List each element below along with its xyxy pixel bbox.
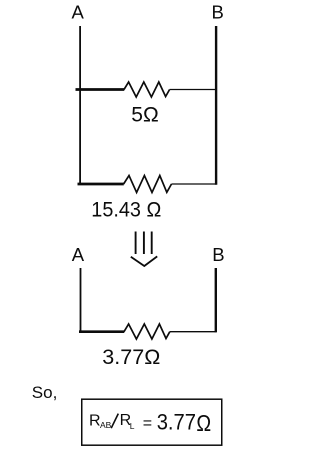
- svg-text:=: =: [143, 415, 152, 432]
- svg-text:R: R: [89, 412, 101, 429]
- equivalence arrow: bar 1: [135, 232, 137, 255]
- svg-text:3.77: 3.77: [157, 409, 196, 434]
- equivalence arrow: chevron: [131, 256, 157, 266]
- svg-text:3.77Ω: 3.77Ω: [102, 345, 160, 369]
- result formula slash: [111, 414, 118, 429]
- wire: thin lead right of resistor RL: [170, 331, 216, 333]
- wire: left vertical, bottom circuit: [80, 268, 82, 332]
- wire: right vertical, bottom circuit: [215, 268, 217, 332]
- svg-text:B: B: [212, 244, 224, 265]
- svg-text:Ω: Ω: [196, 410, 211, 436]
- equivalence arrow: bar 2: [143, 232, 145, 255]
- wire: thin lead right of resistor R1: [170, 89, 216, 91]
- result box: [82, 399, 222, 445]
- svg-text:5Ω: 5Ω: [131, 103, 159, 127]
- wire: bold lead left of resistor R1: [76, 88, 125, 91]
- svg-text:AB: AB: [100, 420, 112, 430]
- wire: bold lead left of resistor RL: [79, 330, 124, 333]
- svg-text:15.43 Ω: 15.43 Ω: [91, 197, 161, 221]
- wire: thin lead right of resistor R2: [172, 183, 217, 185]
- resistor RL zigzag (3.77 ohm): [124, 324, 170, 339]
- svg-text:So,: So,: [32, 383, 58, 402]
- wire: right vertical, top circuit: [215, 26, 217, 185]
- resistor R1 zigzag (5 ohm): [124, 82, 170, 97]
- svg-text:B: B: [212, 1, 224, 22]
- wire: left vertical, top circuit: [79, 26, 81, 185]
- resistor R2 zigzag (15.43 ohm): [124, 176, 172, 193]
- svg-text:L: L: [130, 421, 135, 431]
- equivalence arrow: bar 3: [151, 232, 153, 255]
- svg-text:A: A: [72, 244, 85, 265]
- wire: bold lead left of resistor R2: [78, 183, 124, 186]
- svg-text:A: A: [72, 1, 85, 22]
